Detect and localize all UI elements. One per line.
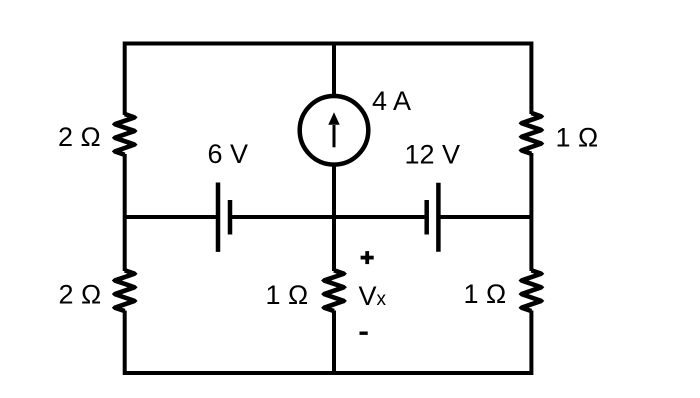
resistor R4 1ohm bottom-right [519,268,545,313]
resistor R5 1ohm middle-bottom [321,268,347,313]
resistor R1 2ohm top-left [112,112,138,157]
battery V2 12V tall plate [436,183,441,252]
current source I1 4A circle [300,96,369,165]
wire right lower [529,311,533,376]
wire middle horizontal between batteries [230,215,427,219]
wire right upper [529,42,533,115]
svg-text:2 Ω: 2 Ω [58,122,101,152]
resistor R3 1ohm top-right [519,111,545,156]
svg-text:1 Ω: 1 Ω [556,123,599,153]
battery V1 6V short plate [228,200,233,235]
svg-text:1 Ω: 1 Ω [464,279,507,309]
current source I1 arrow head [328,112,339,124]
svg-text:Vx: Vx [359,281,387,311]
wire left lower [123,311,127,376]
svg-text:1 Ω: 1 Ω [266,280,309,310]
resistor R2 2ohm bottom-left [112,268,138,313]
wire left middle [123,154,127,271]
svg-text:6 V: 6 V [208,139,249,169]
wire right middle [529,153,533,271]
wire top [125,42,532,46]
wire middle horizontal left of 6V [125,215,218,219]
wire bottom [125,371,532,375]
svg-text:2 Ω: 2 Ω [59,280,102,310]
label minus sign of Vx [360,332,368,335]
label plus sign of Vx [361,256,374,260]
battery V1 6V tall plate [216,183,221,252]
wire middle vertical lower [332,311,336,374]
current source I1 arrow shaft [333,125,336,147]
wire left upper [123,42,127,116]
wire middle vertical top [332,44,336,97]
svg-text:12 V: 12 V [405,140,461,170]
svg-text:4 A: 4 A [372,86,411,116]
battery V2 12V short plate [424,200,429,235]
wire middle horizontal right of 12V [438,215,531,219]
wire middle vertical between source and mid wire [332,165,336,272]
